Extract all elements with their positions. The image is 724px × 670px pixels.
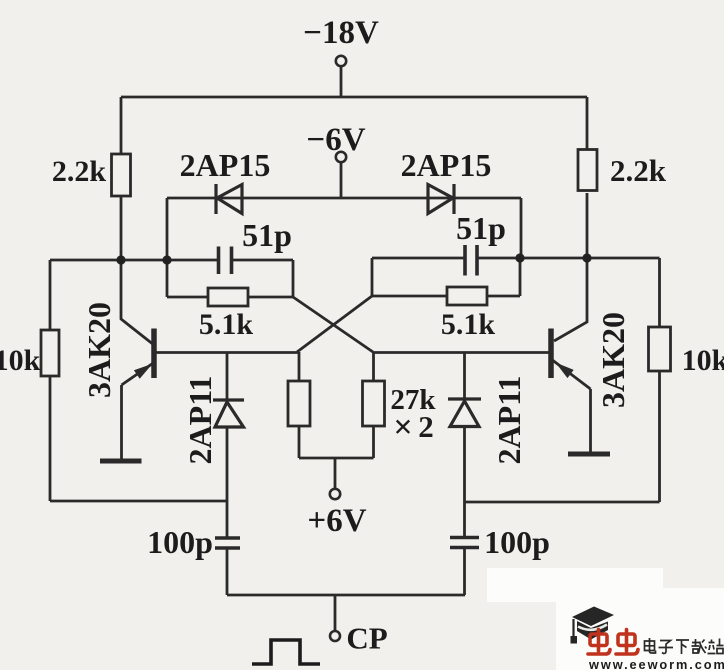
diode 2AP11 right [448, 399, 481, 427]
wire left 2AP11 bottom lead to cap [226, 427, 229, 537]
svg-text:−18V: −18V [303, 15, 379, 51]
wire left 27k top lead [298, 352, 301, 381]
wire right 2AP11 top lead [463, 353, 466, 400]
white patch center-right [487, 568, 663, 602]
capacitor 100p left [215, 538, 240, 548]
wire +6V join [299, 457, 374, 460]
svg-text:5.1k: 5.1k [199, 308, 254, 341]
wire left collector row [50, 259, 293, 262]
diode 2AP15 right [428, 184, 454, 214]
svg-text:51p: 51p [456, 210, 506, 246]
transistor Q2 3AK20 right [551, 329, 591, 390]
CP pulse symbol [252, 640, 320, 664]
power terminal -6V lead [340, 162, 343, 198]
svg-text:2AP11: 2AP11 [491, 376, 527, 465]
diode 2AP11 left [213, 400, 244, 427]
wire left 2.2k column top [120, 97, 123, 154]
resistor 27k right [363, 381, 385, 426]
wire left 100p bottom lead [226, 549, 229, 596]
ground left [100, 459, 142, 464]
svg-text:+6V: +6V [307, 503, 366, 539]
wire diode row [167, 197, 521, 200]
wire left emitter down [120, 385, 123, 459]
junction right RC end [515, 253, 524, 262]
wire right diode-row drop [520, 198, 523, 258]
wire left bottom horizontal [50, 500, 227, 503]
svg-text:10k: 10k [682, 344, 724, 377]
svg-text:100p: 100p [147, 524, 213, 560]
watermark red bug char 2 [616, 630, 638, 655]
capacitor 100p right [450, 538, 479, 548]
wire right 27k bottom lead [372, 426, 375, 458]
watermark text xia (drawn) [676, 640, 689, 654]
svg-text:−6V: −6V [306, 122, 365, 158]
power terminal -18V lead [340, 67, 343, 98]
wire right collector connection [554, 258, 587, 341]
power terminal +6V [330, 489, 340, 499]
wire left collector connection [121, 260, 154, 345]
wire right emitter down [589, 389, 592, 452]
wire bottom rail [227, 594, 465, 597]
svg-text:2AP15: 2AP15 [401, 147, 492, 183]
watermark text zi (drawn) [659, 641, 674, 654]
wire top rail [121, 96, 587, 99]
svg-text:www.eeworm.com: www.eeworm.com [588, 657, 724, 670]
power terminal -18V [336, 56, 346, 66]
wire right RC right vertical [519, 258, 522, 296]
resistor 5.1k right [447, 287, 487, 305]
power terminal -6V [336, 152, 346, 162]
resistor 10k left [41, 330, 59, 376]
resistor 2.2k right [578, 150, 597, 191]
wire left 2.2k column bottom [120, 196, 123, 260]
transistor Q1 3AK20 left [122, 329, 155, 386]
watermark red bug char 1 [588, 630, 610, 655]
wire cross-coupling diagonal B [297, 296, 372, 352]
wire left diode-row drop [166, 198, 169, 260]
capacitor 51p right [465, 245, 477, 276]
resistor 2.2k left [112, 154, 131, 196]
junction left collector/2.2k [116, 255, 125, 264]
capacitor 51p left [219, 247, 232, 275]
wire cross-coupling diagonal A [293, 297, 373, 352]
wire +6V lead [334, 458, 337, 489]
watermark graduation cap [571, 607, 615, 644]
node CP terminal [330, 631, 340, 641]
wire right RC left vertical [371, 258, 374, 296]
svg-text:2.2k: 2.2k [610, 153, 667, 188]
wire left RC resistor leads [167, 296, 293, 299]
resistor 5.1k left [208, 288, 248, 306]
watermark text zhan (drawn) [708, 639, 724, 654]
svg-text:2AP11: 2AP11 [182, 376, 218, 465]
wire right collector row [372, 257, 660, 260]
wire right 2.2k column top [586, 97, 589, 151]
wire CP lead [334, 595, 337, 631]
white patch watermark background [556, 588, 724, 670]
ground right [568, 452, 610, 457]
svg-text:3AK20: 3AK20 [595, 312, 631, 408]
wire right 2.2k column bottom [586, 193, 589, 258]
wire right base line [373, 351, 551, 354]
resistor 27k left [288, 381, 310, 426]
svg-text:3AK20: 3AK20 [81, 302, 117, 398]
svg-text:2.2k: 2.2k [52, 155, 107, 188]
svg-text:51p: 51p [242, 217, 292, 253]
wire left RC right vertical [292, 260, 295, 297]
wire left RC left vertical [166, 260, 169, 297]
diode 2AP15 left [216, 184, 242, 214]
svg-text:5.1k: 5.1k [441, 308, 496, 341]
wire right 27k top lead [372, 352, 375, 381]
wire left 2AP11 top lead [226, 353, 229, 401]
junction left diode drop [162, 255, 171, 264]
wire right 2AP11 bottom lead to cap [463, 427, 466, 538]
svg-text:10k: 10k [0, 344, 41, 377]
wire right 100p bottom lead [463, 548, 466, 595]
svg-text:CP: CP [346, 621, 387, 656]
wire right RC resistor leads [372, 295, 520, 298]
wire left 10k column [49, 260, 52, 501]
watermark text zai (drawn) [692, 639, 707, 654]
svg-text:×: × [393, 409, 412, 446]
wire left 27k bottom lead [298, 426, 301, 458]
svg-text:2AP15: 2AP15 [180, 147, 271, 183]
svg-text:2: 2 [418, 409, 434, 444]
wire right bottom horizontal [465, 501, 660, 504]
junction right collector/2.2k [582, 253, 591, 262]
wire left base line [154, 351, 299, 354]
watermark text dian (drawn) [645, 638, 656, 653]
svg-text:100p: 100p [484, 524, 550, 560]
wire right 10k column [658, 258, 661, 502]
resistor 10k right [649, 327, 671, 371]
